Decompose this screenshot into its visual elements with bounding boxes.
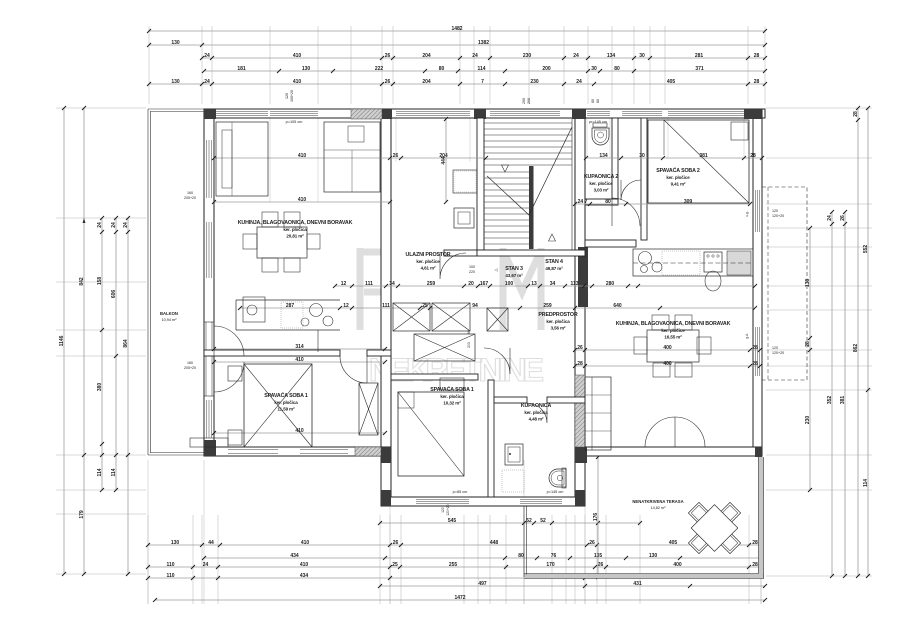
svg-text:410: 410 xyxy=(301,540,310,546)
svg-text:76: 76 xyxy=(551,553,557,559)
svg-text:113: 113 xyxy=(570,281,578,287)
svg-text:1146: 1146 xyxy=(59,335,65,346)
svg-text:10,94 m²: 10,94 m² xyxy=(162,318,178,322)
svg-text:434: 434 xyxy=(290,553,299,559)
svg-text:80: 80 xyxy=(605,199,611,205)
svg-text:11,59 m²: 11,59 m² xyxy=(278,407,296,412)
svg-text:44: 44 xyxy=(208,540,214,546)
svg-text:24: 24 xyxy=(204,79,210,85)
svg-text:ker. pločica: ker. pločica xyxy=(283,227,307,232)
svg-text:120: 120 xyxy=(772,209,778,213)
svg-text:16,55 m²: 16,55 m² xyxy=(664,335,682,340)
svg-text:30: 30 xyxy=(591,66,597,72)
svg-text:28: 28 xyxy=(853,111,859,117)
svg-text:20,81 m²: 20,81 m² xyxy=(286,234,304,239)
svg-text:230: 230 xyxy=(805,416,811,425)
svg-text:28: 28 xyxy=(805,341,811,347)
svg-text:130: 130 xyxy=(171,79,180,85)
svg-text:203: 203 xyxy=(467,342,471,348)
svg-text:167: 167 xyxy=(480,281,489,287)
svg-text:130: 130 xyxy=(302,66,311,72)
svg-text:200: 200 xyxy=(527,98,531,104)
svg-text:26: 26 xyxy=(598,562,604,568)
svg-text:28: 28 xyxy=(752,562,758,568)
svg-text:120+20: 120+20 xyxy=(772,214,784,218)
svg-text:26: 26 xyxy=(393,540,399,546)
svg-text:28: 28 xyxy=(750,153,756,159)
svg-text:410: 410 xyxy=(298,153,307,159)
svg-text:181: 181 xyxy=(237,66,246,72)
svg-text:NENATKRIVENA TERASA: NENATKRIVENA TERASA xyxy=(632,499,683,504)
svg-text:255: 255 xyxy=(449,562,458,568)
svg-text:410: 410 xyxy=(300,562,309,568)
svg-text:30: 30 xyxy=(639,153,645,159)
svg-text:110: 110 xyxy=(166,573,174,579)
svg-text:380: 380 xyxy=(97,383,103,392)
svg-text:KUPAONICA 2: KUPAONICA 2 xyxy=(584,174,618,180)
svg-text:134: 134 xyxy=(607,53,616,59)
svg-text:114: 114 xyxy=(97,468,103,476)
svg-text:444: 444 xyxy=(441,156,447,165)
svg-text:400: 400 xyxy=(673,562,682,568)
svg-text:448: 448 xyxy=(490,540,499,546)
svg-text:431: 431 xyxy=(633,581,642,587)
svg-text:p=145 cm: p=145 cm xyxy=(547,490,564,494)
svg-text:281: 281 xyxy=(695,53,704,59)
svg-text:114: 114 xyxy=(477,66,485,72)
svg-text:80: 80 xyxy=(439,66,445,72)
svg-text:400: 400 xyxy=(663,345,672,351)
svg-text:111: 111 xyxy=(365,281,373,287)
svg-text:STAN 3: STAN 3 xyxy=(505,266,523,272)
svg-text:p=85 cm: p=85 cm xyxy=(453,490,468,494)
svg-text:552: 552 xyxy=(863,245,869,254)
svg-text:94: 94 xyxy=(472,303,478,309)
svg-text:28: 28 xyxy=(752,361,758,367)
svg-text:24: 24 xyxy=(204,53,210,59)
svg-text:28: 28 xyxy=(577,361,583,367)
svg-text:100+20: 100+20 xyxy=(290,90,294,102)
svg-text:SPAVAĆA SOBA 2: SPAVAĆA SOBA 2 xyxy=(656,166,700,174)
svg-text:230: 230 xyxy=(530,79,539,85)
svg-text:114: 114 xyxy=(111,468,117,476)
svg-text:111: 111 xyxy=(382,303,390,309)
svg-text:80: 80 xyxy=(518,553,524,559)
svg-text:g.d.: g.d. xyxy=(745,333,749,338)
svg-text:497: 497 xyxy=(478,581,487,587)
svg-text:12: 12 xyxy=(341,281,347,287)
svg-text:3,03 m²: 3,03 m² xyxy=(594,188,609,193)
svg-text:ker. pločica: ker. pločica xyxy=(546,319,570,324)
svg-text:80: 80 xyxy=(591,99,595,103)
svg-text:p=105 cm: p=105 cm xyxy=(286,120,303,124)
svg-text:864: 864 xyxy=(123,339,129,348)
svg-text:52: 52 xyxy=(540,518,546,524)
svg-text:20: 20 xyxy=(468,281,474,287)
svg-text:12: 12 xyxy=(343,303,349,309)
svg-text:200: 200 xyxy=(542,66,551,72)
svg-text:28: 28 xyxy=(754,79,760,85)
svg-text:43,67 m²: 43,67 m² xyxy=(505,273,523,278)
svg-text:371: 371 xyxy=(695,66,704,72)
svg-text:26: 26 xyxy=(385,53,391,59)
svg-text:130: 130 xyxy=(649,553,658,559)
svg-text:13: 13 xyxy=(531,281,537,287)
svg-text:24 7: 24 7 xyxy=(578,199,588,205)
svg-text:26: 26 xyxy=(577,345,583,351)
svg-text:405: 405 xyxy=(669,540,678,546)
svg-text:28: 28 xyxy=(752,540,758,546)
svg-text:410: 410 xyxy=(295,428,304,434)
svg-text:ker. pločice: ker. pločice xyxy=(589,181,613,186)
svg-text:205+20: 205+20 xyxy=(184,366,196,370)
svg-text:10,32 m²: 10,32 m² xyxy=(443,401,461,406)
svg-text:ker. pločice: ker. pločice xyxy=(666,175,690,180)
svg-text:SPAVAĆA SOBA 1: SPAVAĆA SOBA 1 xyxy=(264,391,308,399)
svg-text:52: 52 xyxy=(526,518,532,524)
svg-text:24: 24 xyxy=(97,222,103,228)
svg-text:176: 176 xyxy=(593,513,599,522)
svg-text:545: 545 xyxy=(448,518,457,524)
svg-text:110: 110 xyxy=(166,562,174,568)
svg-text:179: 179 xyxy=(79,510,85,519)
svg-text:34: 34 xyxy=(389,281,395,287)
svg-text:405: 405 xyxy=(667,79,676,85)
svg-text:28: 28 xyxy=(752,345,758,351)
svg-text:4,61 m²: 4,61 m² xyxy=(421,266,436,271)
svg-text:120: 120 xyxy=(441,507,445,513)
svg-text:1472: 1472 xyxy=(454,595,465,601)
svg-text:ker. pločica: ker. pločica xyxy=(274,400,298,405)
svg-text:ker. pločice: ker. pločice xyxy=(416,259,440,264)
svg-text:30: 30 xyxy=(639,53,645,59)
svg-text:410: 410 xyxy=(295,357,304,363)
svg-text:410: 410 xyxy=(293,79,302,85)
svg-text:3,56 m²: 3,56 m² xyxy=(551,326,566,331)
svg-text:26: 26 xyxy=(393,153,399,159)
svg-text:9,41 m²: 9,41 m² xyxy=(671,182,686,187)
svg-text:100: 100 xyxy=(469,265,475,269)
svg-text:222: 222 xyxy=(375,66,384,72)
svg-text:26: 26 xyxy=(385,79,391,85)
svg-text:160: 160 xyxy=(187,361,193,365)
svg-text:24: 24 xyxy=(573,53,579,59)
svg-text:309: 309 xyxy=(684,199,693,205)
svg-text:134: 134 xyxy=(599,153,608,159)
svg-text:KUHINJA, BLAGOVAONICA, DNEVNI: KUHINJA, BLAGOVAONICA, DNEVNI BORAVAK xyxy=(616,321,731,327)
svg-text:ULAZNI PROSTOR: ULAZNI PROSTOR xyxy=(406,252,451,258)
svg-text:434: 434 xyxy=(300,573,309,579)
svg-text:230: 230 xyxy=(523,53,532,59)
svg-text:130: 130 xyxy=(171,540,180,546)
svg-text:28: 28 xyxy=(754,53,760,59)
svg-text:120+20: 120+20 xyxy=(446,504,450,516)
svg-text:24: 24 xyxy=(111,222,117,228)
svg-text:24: 24 xyxy=(123,222,129,228)
svg-text:4,48 m²: 4,48 m² xyxy=(529,417,544,422)
svg-text:34: 34 xyxy=(550,281,556,287)
svg-text:1482: 1482 xyxy=(451,26,462,32)
svg-text:7: 7 xyxy=(481,79,484,85)
svg-text:80: 80 xyxy=(614,66,620,72)
svg-text:205+20: 205+20 xyxy=(184,196,196,200)
svg-text:220: 220 xyxy=(469,270,475,274)
svg-text:24: 24 xyxy=(472,53,478,59)
svg-text:170: 170 xyxy=(546,562,555,568)
svg-text:24: 24 xyxy=(203,562,209,568)
svg-text:120+20: 120+20 xyxy=(772,351,784,355)
svg-text:410: 410 xyxy=(293,53,302,59)
svg-text:842: 842 xyxy=(79,277,85,286)
svg-text:204: 204 xyxy=(422,79,431,85)
svg-text:410: 410 xyxy=(298,197,307,203)
svg-text:1382: 1382 xyxy=(478,40,489,46)
svg-text:NEKRETNINE: NEKRETNINE xyxy=(369,352,547,388)
svg-text:204: 204 xyxy=(422,53,431,59)
svg-text:280: 280 xyxy=(606,281,615,287)
svg-text:STAN 4: STAN 4 xyxy=(545,259,563,265)
svg-text:26: 26 xyxy=(589,540,595,546)
svg-text:120: 120 xyxy=(772,346,778,350)
svg-text:138: 138 xyxy=(805,279,811,288)
svg-text:KUHINJA, BLAGOVAONICA, DNEVNI: KUHINJA, BLAGOVAONICA, DNEVNI BORAVAK xyxy=(238,220,353,226)
svg-text:26: 26 xyxy=(840,215,846,221)
svg-text:160: 160 xyxy=(187,191,193,195)
svg-text:14,82 m²: 14,82 m² xyxy=(651,506,667,510)
svg-text:PREDPROSTOR: PREDPROSTOR xyxy=(538,312,577,318)
svg-text:381: 381 xyxy=(840,396,846,405)
svg-text:ker. pločica: ker. pločica xyxy=(440,394,464,399)
svg-text:BALKON: BALKON xyxy=(160,311,178,316)
svg-text:314: 314 xyxy=(295,344,304,350)
svg-text:130: 130 xyxy=(171,40,180,46)
svg-text:200: 200 xyxy=(522,98,526,104)
svg-text:287: 287 xyxy=(286,303,295,309)
svg-text:259: 259 xyxy=(427,281,436,287)
svg-text:862: 862 xyxy=(853,344,859,353)
svg-text:80: 80 xyxy=(596,99,600,103)
svg-text:640: 640 xyxy=(613,303,622,309)
svg-text:158: 158 xyxy=(97,277,103,286)
svg-text:pr=145 cm: pr=145 cm xyxy=(589,120,607,124)
svg-text:u.g.: u.g. xyxy=(745,211,749,216)
svg-text:352: 352 xyxy=(827,396,833,405)
svg-text:100: 100 xyxy=(505,281,514,287)
svg-text:24: 24 xyxy=(827,215,833,221)
svg-text:49,87 m²: 49,87 m² xyxy=(545,266,563,271)
svg-text:25: 25 xyxy=(392,562,398,568)
svg-text:606: 606 xyxy=(111,290,117,299)
svg-text:114: 114 xyxy=(863,479,869,487)
svg-text:24: 24 xyxy=(576,79,582,85)
svg-text:120: 120 xyxy=(285,93,289,99)
svg-text:259: 259 xyxy=(543,303,552,309)
